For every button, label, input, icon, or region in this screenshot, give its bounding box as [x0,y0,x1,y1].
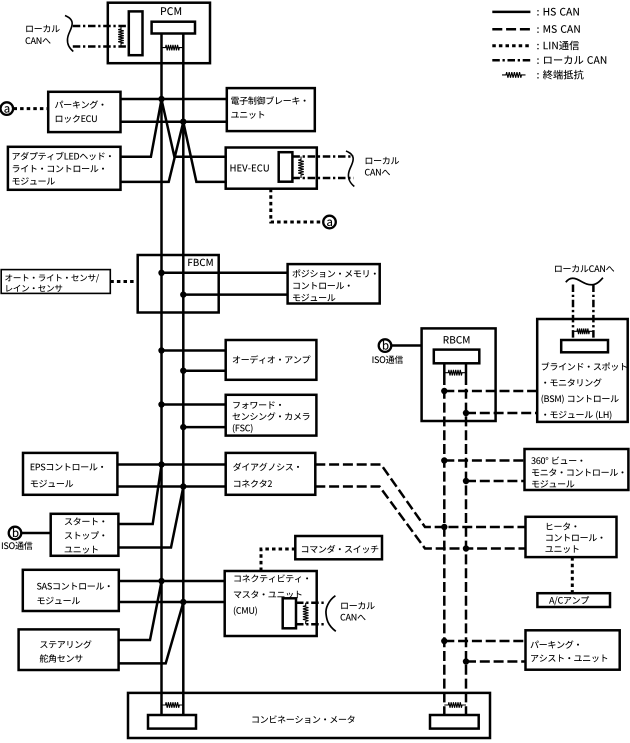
wire LIN heater control unit to A/C amp [571,557,574,593]
wire HS CAN to forward sensing camera (top) [162,403,226,406]
junction node J20 [463,658,469,664]
legend HS CAN label [537,8,579,16]
wire MS CAN to 360 view monitor module (bottom) [466,480,525,483]
junction node J17 [441,524,447,530]
termination resistor in HEV-ECU [298,157,304,179]
termination resistor in combination meter (MS CAN) [444,702,466,708]
label local CAN at HEV-ECU [365,157,399,176]
ECU box audio amp [226,340,317,380]
legend HS CAN solid line [492,11,530,14]
wire HS CAN bus line 1 (PCM to combination meter) [160,34,163,716]
connector CMU local CAN connector [283,598,296,628]
junction node J5 [158,347,164,353]
break symbol local CAN at PCM [65,16,73,52]
wire HS CAN adaptive LED module (bottom) [121,122,184,182]
junction node J18 [463,545,469,551]
junction node J19 [441,638,447,644]
ECU box FBCM [138,255,219,313]
wire local CAN at HEV-ECU (line 1) [292,155,353,158]
connector PCM vertical connector [129,11,143,55]
wire MS CAN diagnosis connector to heater control unit (top) [315,465,525,528]
connector BSM local CAN connector [561,340,608,352]
label local CAN at CMU [341,602,375,621]
ECU box blind spot monitoring BSM control module LH [537,319,628,422]
node b (left, ISO) [9,527,22,540]
wire HS CAN steering angle sensor (top) [119,582,162,641]
junction node J13 [441,388,447,394]
wire local CAN at PCM (line 1) [73,25,129,28]
ECU box parking assist unit [526,630,620,669]
wire local CAN at BSM module (line 2) [592,285,595,341]
junction node J6 [180,368,186,374]
legend MS CAN label [537,25,580,33]
wire HS CAN parking lock ECU to electric brake unit (bottom) [121,120,227,123]
ECU box SAS control module [23,570,119,611]
legend termination resistor label [537,70,583,80]
junction node J12 [180,599,186,605]
ECU box start stop unit [51,514,119,556]
junction node J15 [441,457,447,463]
legend local CAN dash-dot line [492,59,530,62]
ECU box forward sensing camera FSC [226,395,317,436]
junction node J10 [180,483,186,489]
wire local CAN at PCM (line 2) [73,45,129,48]
wire LIN HEV-ECU to node a [271,189,323,222]
break symbol local CAN at CMU [326,596,336,632]
label local CAN at PCM [26,25,60,44]
ECU box parking lock ECU [48,92,120,132]
connector combination meter MS CAN connector [430,715,479,729]
connector RBCM bus connector [434,350,480,364]
ECU box HEV-ECU [226,148,317,189]
sensor box steering angle sensor [19,629,119,670]
wire local CAN at CMU (line 2) [296,623,326,626]
connector HEV-ECU local CAN connector [279,152,293,182]
wire ISO line node b to start stop unit [21,532,51,535]
amp box A/C amp [537,593,610,607]
wire LIN node a to parking lock ECU [0,107,48,110]
node a (below HEV-ECU) [323,216,336,229]
wire MS CAN to parking assist unit (top) [444,640,525,643]
wire MS CAN to 360 view monitor module (top) [444,459,524,462]
junction node J4 [180,291,186,297]
legend LIN dotted line [492,44,530,47]
junction node J1 [158,96,164,102]
connector PCM bus connector [152,22,195,34]
wire local CAN at CMU (line 1) [296,601,326,604]
break symbol local CAN at BSM module [566,278,603,285]
junction node J2 [180,119,186,125]
junction node J3 [158,270,164,276]
break symbol local CAN at HEV-ECU [346,151,354,187]
ECU box position memory control module [288,264,380,303]
wire HS CAN EPS module to diagnosis connector (bottom) [117,485,225,488]
legend LIN label [537,41,579,50]
wire MS CAN to parking assist unit (bottom) [466,660,526,663]
wire ISO line node b to RBCM [391,344,422,347]
wire HS CAN bus line 2 (PCM to combination meter) [182,34,185,716]
junction node J9 [158,461,164,467]
meter box combination meter [128,693,490,738]
legend MS CAN dashed line [492,28,530,31]
wire HS CAN to forward sensing camera (bottom) [183,426,225,429]
termination resistor in PCM [162,45,184,51]
ECU box EPS control module [23,453,117,495]
junction node J7 [158,401,164,407]
wire LIN commander switch to CMU [261,549,295,571]
termination resistor in BSM module [573,329,593,335]
ECU box electric brake unit [227,88,315,131]
wire HS CAN HEV-ECU (top) [162,100,227,157]
wire HS CAN EPS module to diagnosis connector (top) [117,463,225,466]
node a (left) [1,102,14,115]
wire HS CAN to audio amp (top) [162,349,226,352]
ECU box 360 view monitor control module [525,449,629,490]
wire HS CAN to audio amp (bottom) [183,369,225,372]
ECU box connectivity master unit CMU [225,571,317,636]
wire HS CAN adaptive LED module (top) [121,100,162,157]
wire local CAN at HEV-ECU (line 2) [292,177,353,180]
wire HS CAN steering angle sensor (bottom) [119,603,184,664]
wire HS CAN start stop unit (bottom) [118,487,183,548]
wire HS CAN start stop unit (top) [118,465,161,524]
junction node J8 [180,424,186,430]
wire MS CAN bus line 2 (RBCM down) [465,363,468,715]
termination resistor in CMU [303,603,309,625]
wire MS CAN bus line 1 (RBCM down) [443,363,446,715]
wire MS CAN RBCM to BSM module (bottom) [466,412,537,415]
termination resistor in RBCM [444,370,466,376]
legend termination resistor symbol [502,72,526,78]
junction node J11 [158,578,164,584]
label local CAN at BSM module [555,265,614,272]
ECU box PCM [108,3,210,64]
ECU box RBCM [422,328,496,421]
wire MS CAN diagnosis connector to heater control unit (bottom) [315,487,525,549]
ECU box adaptive LED headlight control module [8,147,121,190]
wire HS CAN SAS module to CMU (top) [119,580,225,583]
switch box commander switch [295,536,382,559]
wire HS CAN SAS module to CMU (bottom) [119,601,225,604]
junction node J16 [463,478,469,484]
connector combination meter HS CAN connector [148,715,196,729]
node b (at RBCM, ISO) [379,339,392,352]
wire HS CAN FBCM to position memory module (bottom) [183,293,287,296]
wire local CAN at BSM module (line 1) [572,285,575,341]
wire MS CAN RBCM to BSM module (top) [444,390,537,393]
label ISO communication (at RBCM) [372,355,402,363]
wire HS CAN FBCM to position memory module (top) [162,272,288,275]
label ISO communication (left) [2,541,32,549]
wire HS CAN parking lock ECU to electric brake unit (top) [121,98,227,101]
legend local CAN label [537,56,606,64]
wire HS CAN HEV-ECU (bottom) [183,122,227,182]
wire LIN auto light/rain sensor to FBCM [110,280,137,283]
sensor box auto light sensor / rain sensor [1,270,110,294]
ECU box heater control unit [526,517,617,557]
termination resistor in combination meter (HS CAN) [162,702,184,708]
connector box diagnosis connector 2 [226,453,316,495]
junction node J14 [463,410,469,416]
termination resistor at PCM local CAN [118,26,124,47]
